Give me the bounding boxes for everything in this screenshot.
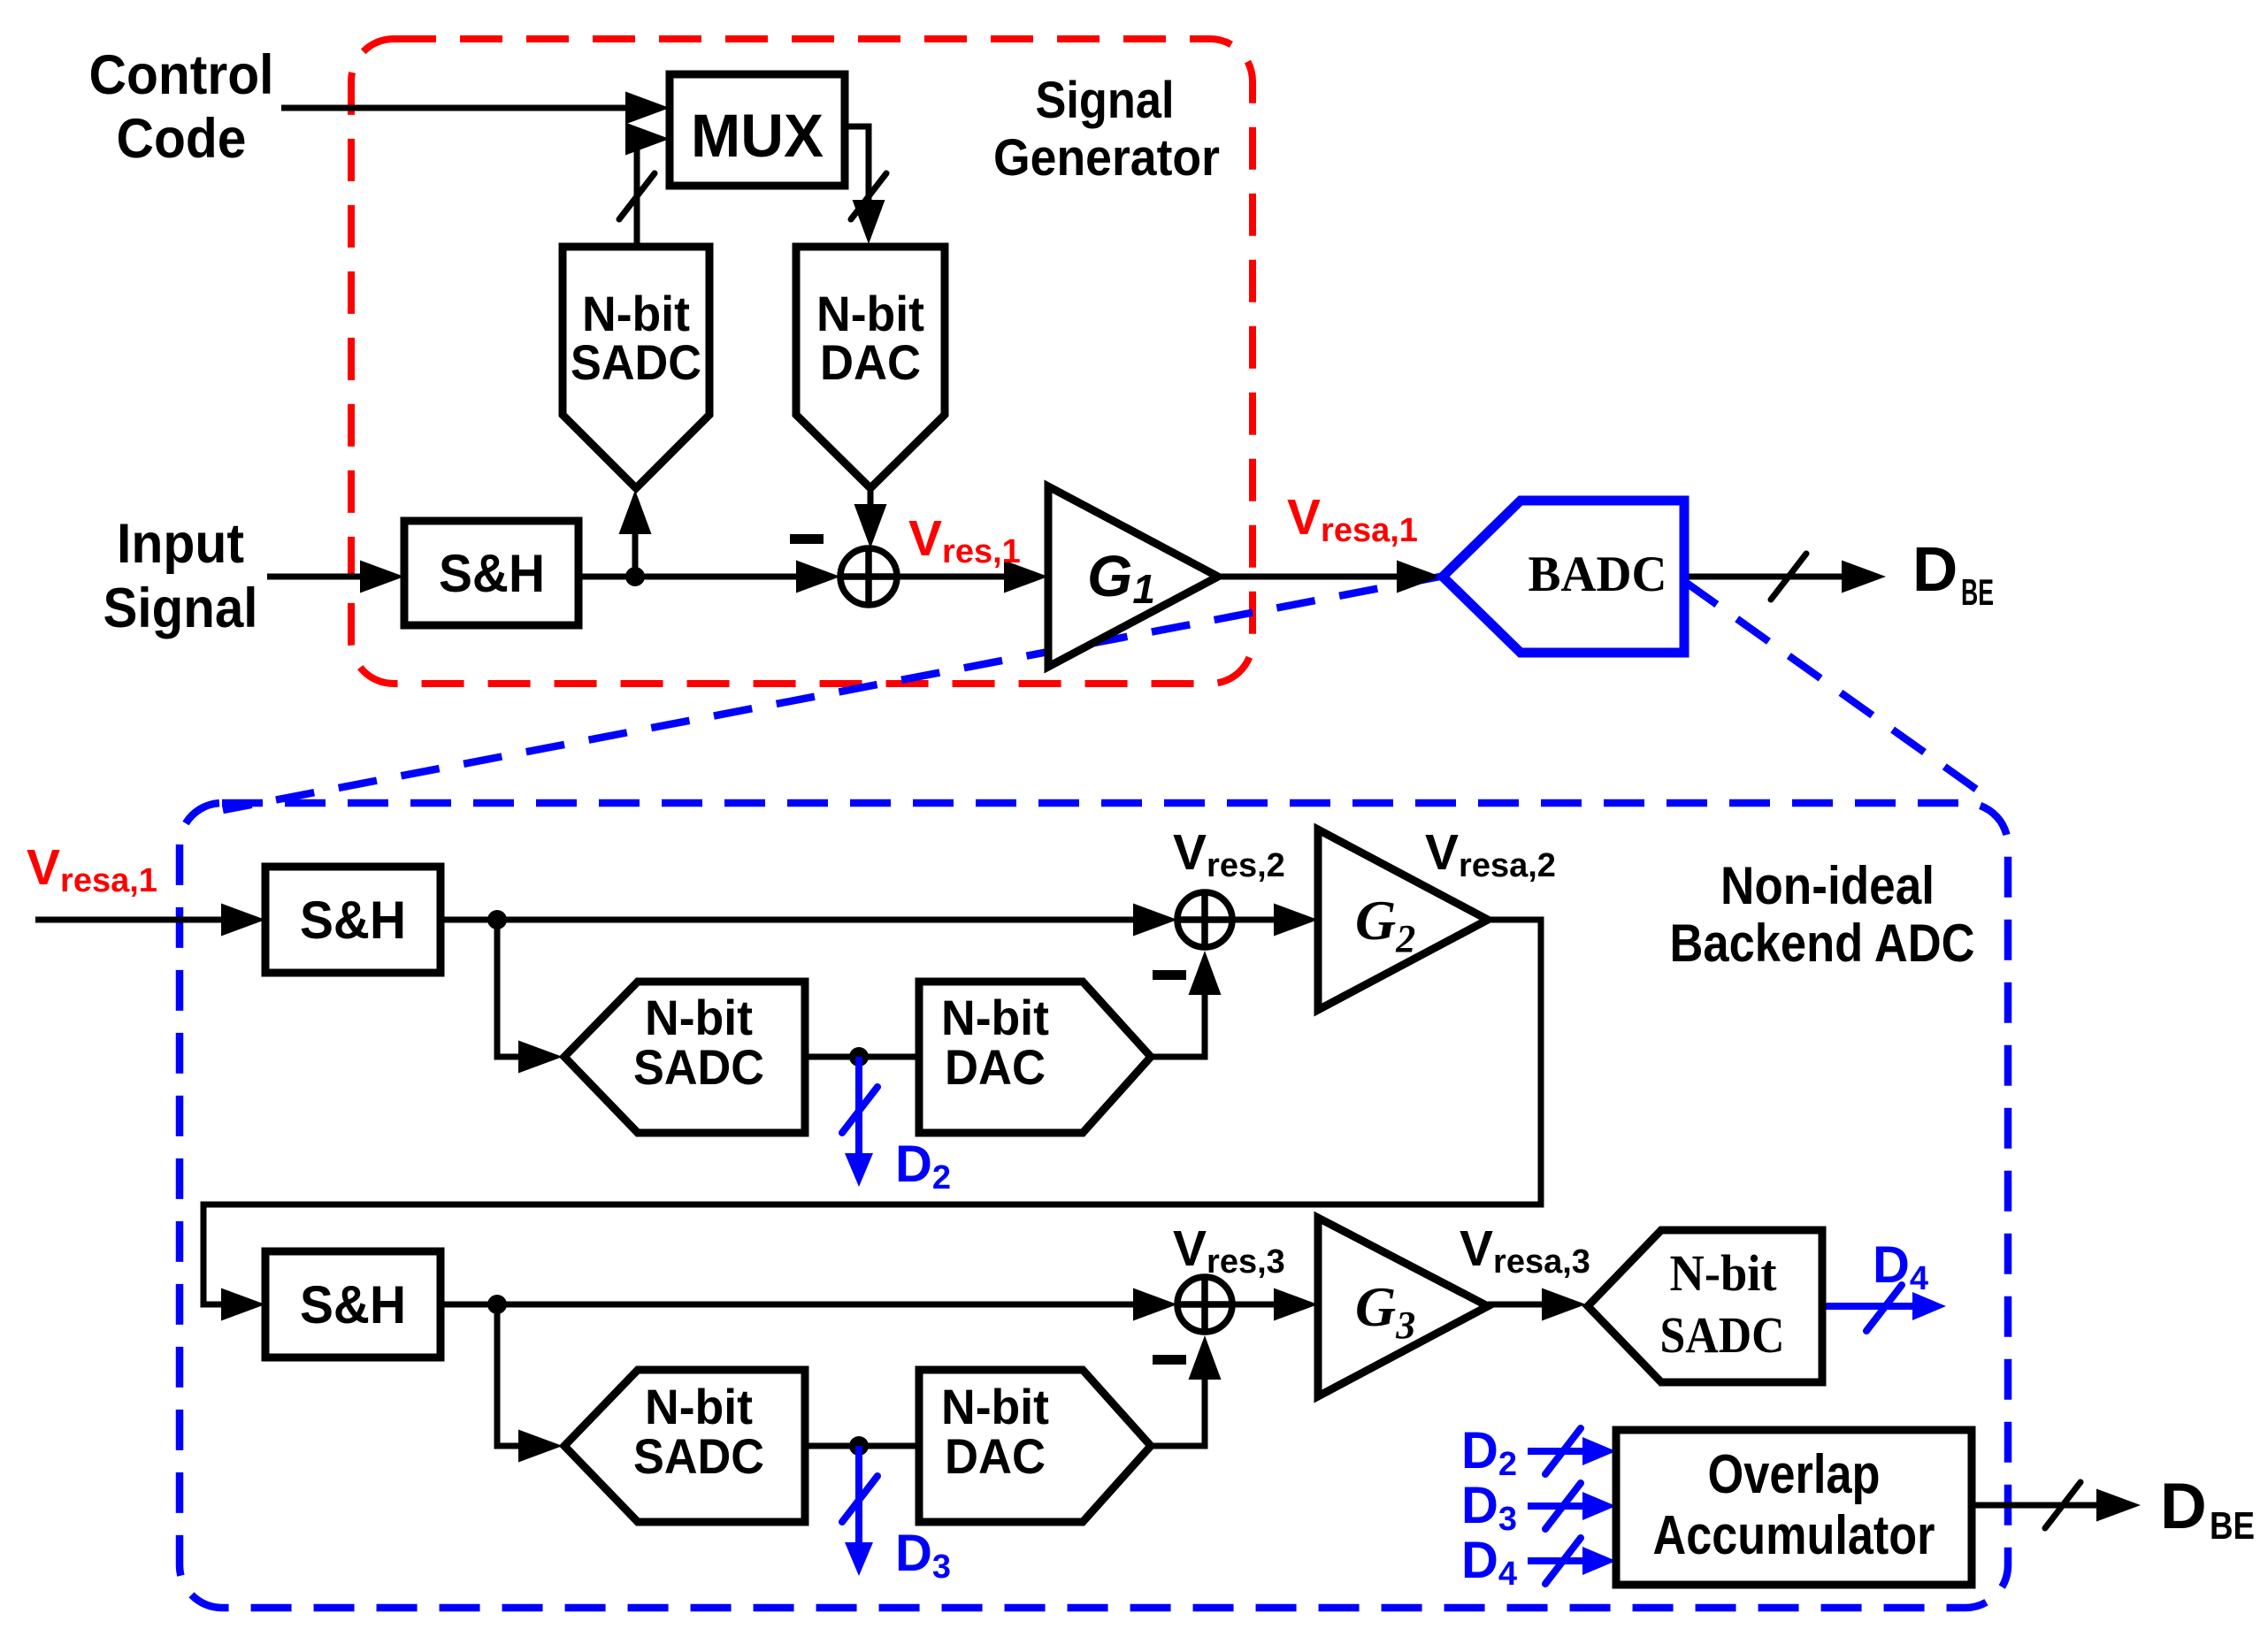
svg-text:S&H: S&H: [300, 891, 406, 950]
svg-text:SADC: SADC: [1660, 1306, 1785, 1364]
svg-text:Overlap: Overlap: [1708, 1444, 1881, 1505]
svg-text:Code: Code: [117, 108, 247, 170]
svg-text:S&H: S&H: [439, 544, 545, 603]
svg-text:Non-ideal: Non-ideal: [1720, 856, 1935, 915]
svg-text:Control: Control: [89, 44, 274, 106]
svg-text:Accumulator: Accumulator: [1653, 1505, 1935, 1566]
svg-text:Signal: Signal: [103, 577, 258, 639]
svg-text:SADC: SADC: [633, 1428, 764, 1484]
svg-text:Input: Input: [117, 513, 244, 575]
svg-text:N-bit: N-bit: [1670, 1244, 1778, 1302]
svg-text:N-bit: N-bit: [645, 990, 753, 1045]
svg-text:N-bit: N-bit: [582, 286, 690, 341]
svg-text:DAC: DAC: [945, 1039, 1046, 1095]
svg-text:Signal: Signal: [1036, 72, 1175, 129]
svg-text:DAC: DAC: [820, 334, 921, 390]
svg-text:N-bit: N-bit: [645, 1379, 753, 1434]
svg-text:Generator: Generator: [993, 129, 1220, 187]
svg-text:N-bit: N-bit: [816, 286, 924, 341]
svg-text:SADC: SADC: [633, 1039, 764, 1095]
svg-text:D: D: [1912, 535, 1958, 605]
svg-text:N-bit: N-bit: [941, 1379, 1049, 1434]
svg-text:S&H: S&H: [300, 1275, 406, 1334]
svg-text:N-bit: N-bit: [941, 990, 1049, 1045]
svg-text:BE: BE: [1961, 571, 1994, 613]
svg-text:BADC: BADC: [1529, 547, 1667, 602]
svg-text:D: D: [2160, 1471, 2207, 1542]
svg-text:DAC: DAC: [945, 1428, 1046, 1484]
svg-text:SADC: SADC: [571, 334, 701, 390]
svg-text:BE: BE: [2210, 1504, 2255, 1548]
svg-text:MUX: MUX: [691, 102, 824, 170]
svg-text:Backend ADC: Backend ADC: [1670, 914, 1975, 973]
